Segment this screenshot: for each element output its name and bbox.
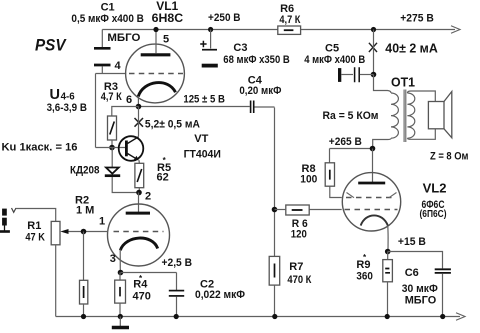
resistor R7 470K [269,256,280,316]
node VL1a anode on rail [153,27,158,32]
cathode VL1a arc [138,83,175,97]
svg-text:68 мкФ х350 В: 68 мкФ х350 В [223,54,290,66]
svg-text:ОТ1: ОТ1 [391,76,415,90]
control grid VL2 dashed [345,209,398,211]
svg-text:4-6: 4-6 [61,92,75,103]
potentiometer R1 [51,221,107,316]
wire grid R6(120) to VL2 [309,209,342,211]
node rail C2 [174,314,179,319]
wire R6 left lead [275,209,286,211]
svg-text:+2,5 В: +2,5 В [162,257,193,269]
svg-text:0,5 мкФ х400 В: 0,5 мкФ х400 В [71,13,144,25]
resistor R2 1M [80,232,88,317]
svg-text:6: 6 [126,94,132,106]
tube VL1 lower triode envelope [108,204,170,266]
node cathode VL1b / R4 [118,270,124,276]
svg-text:360: 360 [356,271,373,283]
input jack [0,208,16,232]
svg-text:0,022 мкФ: 0,022 мкФ [195,289,245,301]
svg-text:6Н8С: 6Н8С [152,11,184,25]
wire cathode node to R3 [112,107,139,117]
wire C1 node down to VT base [95,74,97,148]
capacitor C6 [435,269,451,316]
wire collector [138,107,140,137]
svg-text:VT: VT [194,133,208,145]
svg-text:+265 В: +265 В [329,136,362,148]
measure cross 40mA [369,43,377,52]
node 2 anode VL1b [136,190,142,196]
wire bottom rail arrowhead [456,313,465,320]
wire top rail +250/+275 [102,29,455,31]
node rail R4/ground [118,314,123,319]
svg-text:Ku 1каск. = 16: Ku 1каск. = 16 [2,141,78,153]
capacitor C1 [94,30,111,74]
node rail C6 [440,314,445,319]
wire anode VL1b lead [138,193,140,213]
wire bottom ground rail [56,316,460,318]
svg-text:R4: R4 [133,279,148,291]
svg-text:U: U [50,87,60,103]
svg-text:2: 2 [145,191,151,203]
svg-text:4,7 К: 4,7 К [279,14,300,26]
transformer OT1 core [404,90,406,143]
node VT base [109,145,115,151]
svg-text:1: 1 [99,216,105,228]
svg-text:100: 100 [300,173,317,185]
wire R3 bottom [111,140,113,148]
svg-text:С5: С5 [325,43,339,55]
node grid VL2 / R7 [272,207,278,213]
svg-text:4: 4 [115,60,122,72]
svg-text:5,2± 0,5 мА: 5,2± 0,5 мА [145,119,200,131]
wire VL2 anode lead [372,149,374,183]
wire cathode pin3 lead [119,250,121,273]
node VL1a cathode [136,104,142,110]
svg-text:3,6-3,9 В: 3,6-3,9 В [47,102,87,114]
ground [112,317,129,328]
svg-text:4 мкФ х400 В: 4 мкФ х400 В [304,54,365,66]
cathode VL1b arc [120,238,157,250]
svg-text:47 K: 47 K [25,231,45,243]
svg-text:(6П6С): (6П6С) [420,208,447,220]
beam plates VL2 [347,193,397,198]
capacitor C3 electrolytic [200,30,218,68]
node OT1/C5 top rail [371,27,376,32]
anode bar VL1a pin5 [141,53,171,56]
svg-text:120: 120 [291,228,307,240]
speaker cone [444,92,452,138]
grid VL1a dashed [129,73,183,75]
resistor R6 120 [286,205,309,215]
svg-text:+250 В: +250 В [208,12,241,24]
wire anode pin5 lead [155,30,157,54]
svg-text:3: 3 [110,253,116,265]
capacitor C2 [169,273,184,317]
capacitor C4 [139,101,275,114]
tube VL2 envelope [342,173,400,231]
svg-text:125 ± 5 В: 125 ± 5 В [183,94,225,106]
svg-text:+15 В: +15 В [398,236,426,248]
svg-text:30 мкФ: 30 мкФ [402,283,438,295]
node C5 / OT1 primary [371,72,377,78]
svg-text:С6: С6 [405,267,419,279]
resistor R5 62 [135,163,144,187]
svg-text:+275 В: +275 В [400,12,434,24]
wire base [96,147,126,149]
node R2 grid [81,229,87,235]
transformer OT1 primary lead bottom [373,138,391,148]
svg-text:4,7 К: 4,7 К [101,91,122,103]
svg-text:Ra = 5 КОм: Ra = 5 КОм [323,110,379,122]
node rail R9 [385,314,390,319]
capacitor C5 [338,67,374,82]
node rail R2 [81,314,86,319]
screen grid VL2 dashed [346,197,396,199]
diode KD208 [105,148,139,193]
wire input to R1 [16,209,56,222]
svg-text:С3: С3 [233,42,247,54]
svg-text:R1: R1 [27,220,41,232]
wire R5 bottom [138,188,140,193]
wire secondary bottom to speaker [407,129,435,140]
wire C4 node down to R7 [274,108,276,257]
cathode VL2 arc [361,215,388,225]
wire rail down to C5 node [373,30,375,75]
resistor R3 [108,116,117,140]
svg-text:PSV: PSV [35,37,67,55]
svg-text:МБГО: МБГО [405,295,437,307]
wire +265V horizontal [330,148,373,150]
wire emitter to R5 [138,160,141,163]
node rail R7 [272,314,277,319]
svg-text:1 М: 1 М [76,204,94,216]
svg-text:С1: С1 [101,1,115,13]
svg-text:40± 2 мА: 40± 2 мА [385,41,438,56]
svg-text:470: 470 [133,290,151,302]
wire secondary top to speaker [407,91,435,102]
svg-text:VL2: VL2 [423,181,447,196]
svg-text:470 К: 470 К [287,274,311,286]
svg-text:0,20 мкФ: 0,20 мкФ [239,85,281,97]
wire VL2 cathode lead [387,226,389,252]
wire +15V to C6 [388,252,443,269]
transistor VT [119,136,144,161]
svg-text:R9: R9 [356,259,370,271]
transformer OT1 primary lead top [374,75,388,91]
resistor R9 360 [383,252,393,317]
svg-text:5: 5 [163,33,169,45]
anode bar VL1b pin2 [126,212,150,215]
node +265V [370,146,376,152]
svg-text:62: 62 [157,172,169,184]
node +250V C3 [208,27,213,32]
transformer OT1 secondary winding [407,93,414,138]
wire top rail arrowhead [451,26,460,33]
resistor R8 100 [325,149,342,198]
node +15V [385,249,391,255]
svg-text:R7: R7 [289,261,303,273]
tube VL1 upper triode envelope [126,44,185,103]
wire grid pin4 of VL1a [96,73,127,75]
svg-text:Z = 8 Ом: Z = 8 Ом [430,151,469,163]
resistor R4 470 [115,273,126,317]
svg-text:ГТ404И: ГТ404И [184,148,221,160]
resistor R6 4.7K [278,26,301,34]
svg-text:МБГО: МБГО [107,32,140,44]
svg-text:КД208: КД208 [70,165,100,177]
speaker magnet box [428,102,444,129]
measure cross 5.2mA [135,118,144,127]
wire cathode node to C2 [121,272,177,274]
transformer OT1 primary winding [388,91,392,94]
grid VL1b dashed [114,231,164,233]
wire cathode pin6 lead [137,96,139,107]
anode bar VL2 [358,182,385,185]
